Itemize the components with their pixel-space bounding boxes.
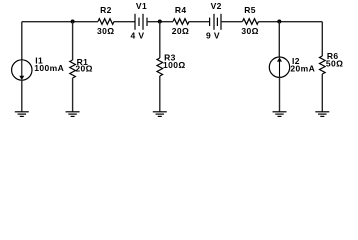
svg-text:30Ω: 30Ω xyxy=(97,26,114,36)
wire R5 to right corner xyxy=(259,21,323,23)
wire right corner down to R6 xyxy=(321,22,323,56)
resistor R3 xyxy=(157,58,163,76)
svg-text:R5: R5 xyxy=(244,5,256,15)
wire R1 top lead xyxy=(72,22,74,61)
wire R3 bottom to ground xyxy=(159,76,161,112)
svg-text:4 V: 4 V xyxy=(131,31,145,41)
wire R1 bottom to ground xyxy=(72,78,74,112)
svg-text:20Ω: 20Ω xyxy=(75,64,92,74)
svg-text:20Ω: 20Ω xyxy=(172,26,189,36)
wire R6 bottom to ground xyxy=(321,74,323,112)
node junction dot at R1 top xyxy=(71,20,75,24)
node junction dot at I2 top xyxy=(277,20,281,24)
current source I2 xyxy=(269,57,289,77)
wire V1 to R4 xyxy=(147,21,173,23)
svg-text:30Ω: 30Ω xyxy=(241,26,258,36)
svg-text:50Ω: 50Ω xyxy=(326,59,343,69)
wire V2 to R5 xyxy=(221,21,243,23)
svg-text:R2: R2 xyxy=(100,5,112,15)
svg-text:100Ω: 100Ω xyxy=(163,60,186,70)
node junction dot at R3 top xyxy=(158,20,162,24)
svg-text:20mA: 20mA xyxy=(290,64,315,74)
resistor R4 xyxy=(173,19,189,25)
ground under I1 xyxy=(15,112,29,117)
wire R4 to V2 xyxy=(189,21,210,23)
current source I1 arrow xyxy=(19,61,24,81)
ground under R6 xyxy=(315,112,329,117)
wire R3 top lead xyxy=(159,22,161,59)
ground under R3 xyxy=(153,112,167,117)
resistor R6 xyxy=(320,56,326,74)
ground under I2 xyxy=(273,112,287,117)
svg-text:100mA: 100mA xyxy=(34,63,64,73)
ground under R1 xyxy=(66,112,80,117)
wire left rail down to I1 xyxy=(21,22,23,60)
current source I2 arrow xyxy=(277,57,282,76)
wire I2 top lead xyxy=(278,22,280,58)
wire I2 bottom to ground xyxy=(279,77,281,111)
wire top rail left segment (left corner to R2) xyxy=(22,21,98,23)
resistor R2 xyxy=(98,19,114,25)
resistor R5 xyxy=(243,19,259,25)
wire R2 to V1 xyxy=(114,21,135,23)
battery V2 xyxy=(210,14,221,30)
svg-text:V1: V1 xyxy=(136,1,147,11)
current source I1 xyxy=(12,60,32,80)
svg-text:V2: V2 xyxy=(211,1,222,11)
svg-text:9 V: 9 V xyxy=(206,31,220,41)
resistor R1 xyxy=(70,60,76,78)
wire I1 bottom to ground xyxy=(21,80,23,112)
battery V1 xyxy=(135,14,147,30)
svg-text:R4: R4 xyxy=(175,5,187,15)
